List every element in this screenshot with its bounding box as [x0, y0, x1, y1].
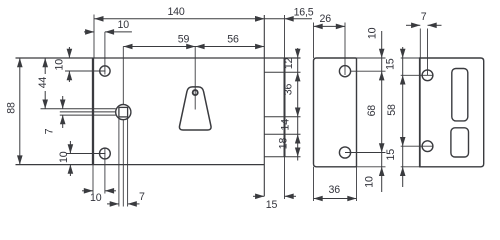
follower square spindle hole	[119, 107, 128, 117]
svg-text:15: 15	[384, 58, 396, 70]
strike plate left edge top extension	[419, 29, 421, 59]
edge view right edge (faceplate front)	[284, 58, 286, 157]
back plate bottom edge extension	[357, 166, 386, 168]
dimension 26 left extension	[313, 23, 315, 59]
dimension 7 left line	[62, 96, 64, 109]
bottom screw hole horizontal centerline	[66, 153, 106, 155]
svg-text:68: 68	[366, 105, 378, 117]
top screw hole	[100, 66, 110, 76]
svg-text:14: 14	[280, 119, 292, 131]
back plate top edge extension	[357, 57, 386, 59]
svg-text:59: 59	[178, 34, 190, 46]
back plate bottom hole	[339, 147, 350, 158]
dimension 10 bottom line	[82, 190, 93, 192]
follower center extension down	[122, 120, 124, 207]
lock case right edge / edge-view left edge	[263, 15, 265, 196]
top screw hole vertical centerline	[104, 32, 106, 75]
lock case top edge	[16, 57, 301, 59]
faceplate extension line above	[93, 15, 95, 59]
svg-text:16,5: 16,5	[294, 7, 314, 19]
dimension 16,5 line	[264, 18, 312, 20]
svg-text:88: 88	[6, 102, 18, 114]
top screw hole horizontal centerline	[65, 70, 106, 72]
svg-text:18: 18	[278, 138, 290, 150]
dimension 15 edge-view line	[253, 195, 264, 197]
back plate top hole	[339, 66, 350, 77]
dimension 44 line	[44, 58, 46, 74]
edge view right edge extensions	[284, 15, 286, 58]
dimension 36 left extension	[313, 167, 315, 201]
bottom screw hole vertical extension	[104, 148, 106, 194]
back plate bottom hole centerline	[345, 152, 386, 154]
strike plate left edge emphasis	[419, 58, 421, 167]
svg-text:36: 36	[282, 84, 294, 96]
strike plate latch slot	[452, 69, 468, 121]
svg-text:12: 12	[283, 57, 295, 69]
svg-text:56: 56	[227, 34, 239, 46]
edge view bottom edge	[264, 156, 300, 158]
svg-text:10: 10	[54, 59, 66, 71]
follower circle	[116, 105, 131, 120]
back plate dim stack line	[381, 31, 383, 192]
edge view division line 3	[264, 133, 300, 135]
svg-text:26: 26	[320, 13, 332, 25]
strike plate top hole	[422, 70, 433, 81]
keyhole bell outline	[179, 87, 211, 130]
follower right edge extension down	[127, 117, 129, 207]
svg-text:10: 10	[90, 192, 102, 204]
strike plate bottom edge left extension	[401, 166, 420, 168]
dimension 10 top line	[84, 31, 94, 33]
svg-text:44: 44	[37, 77, 49, 89]
svg-text:15: 15	[385, 149, 397, 161]
edge view division line 2	[264, 116, 300, 118]
latch line middle	[60, 111, 116, 113]
svg-text:10: 10	[58, 151, 70, 163]
svg-text:10: 10	[363, 176, 375, 188]
strike plate bottom hole centerline	[401, 145, 433, 147]
strike plate bottom hole	[422, 141, 433, 152]
svg-text:10: 10	[118, 19, 130, 31]
keyhole pivot circle	[193, 90, 198, 95]
back plate top hole vertical extension	[344, 23, 346, 76]
dimension 36 plate line	[314, 198, 357, 200]
strike plate deadbolt slot	[451, 128, 469, 157]
dimension 26 line	[314, 25, 346, 27]
dimension 36 right extension	[356, 167, 358, 201]
svg-text:7: 7	[43, 128, 55, 134]
strike plate top edge left extension	[401, 57, 420, 59]
keyhole vertical centerline	[194, 47, 196, 110]
strike plate top hole vertical extension	[427, 29, 429, 76]
edge view division line 1	[264, 71, 300, 73]
strike plate outline	[420, 58, 484, 167]
latch line upper	[41, 108, 116, 110]
back plate top hole centerline	[351, 70, 386, 72]
strike plate dim stack line	[402, 47, 404, 187]
faceplate thick line	[92, 58, 94, 165]
dimension 88 line	[19, 58, 21, 165]
svg-text:140: 140	[167, 6, 184, 18]
dimension 10 left-bottom line	[69, 141, 71, 154]
dimension 7 bottom line	[107, 203, 119, 205]
dimension 59-56 line	[123, 46, 264, 48]
follower vertical extension up	[122, 47, 124, 105]
svg-text:15: 15	[266, 199, 278, 211]
svg-text:58: 58	[386, 104, 398, 116]
faceplate extension line below	[92, 165, 94, 194]
dimension 7 strike line	[406, 24, 420, 26]
dimension 10 left-top line	[68, 47, 70, 58]
edge view dim stack line	[297, 48, 299, 161]
back plate outline	[314, 58, 357, 167]
follower left edge extension down	[118, 117, 120, 207]
svg-text:7: 7	[139, 191, 145, 203]
svg-text:36: 36	[329, 184, 341, 196]
svg-text:7: 7	[421, 11, 427, 23]
svg-text:10: 10	[367, 27, 379, 39]
latch line lower	[60, 114, 116, 116]
strike plate top hole centerline	[401, 74, 433, 76]
lock case bottom edge	[16, 164, 265, 166]
bottom screw hole	[100, 148, 111, 159]
dimension 140 line	[94, 18, 264, 20]
